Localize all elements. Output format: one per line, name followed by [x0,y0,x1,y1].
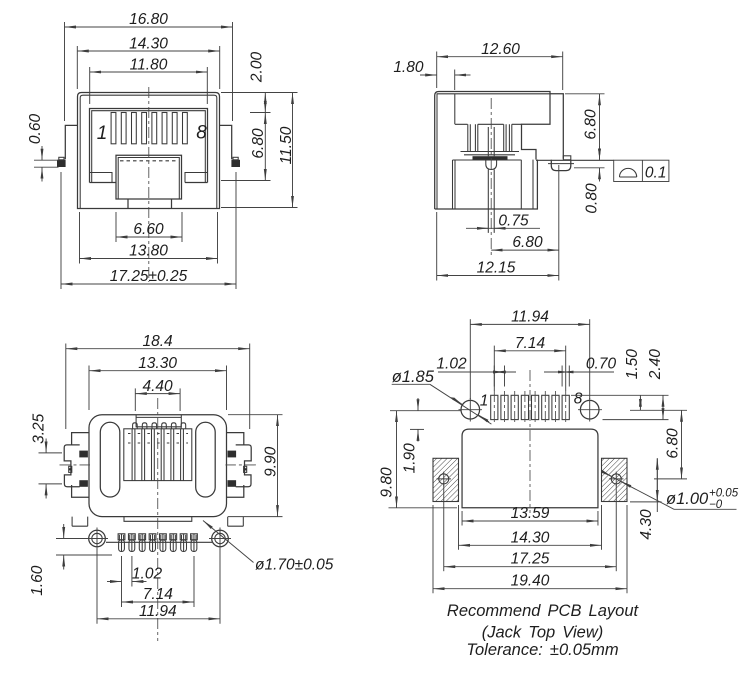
right wing bracket [225,433,256,498]
svg-text:4.40: 4.40 [143,378,174,395]
svg-text:14.30: 14.30 [129,35,168,52]
carrier wall lines [468,124,512,151]
right shelf step [185,173,208,183]
svg-text:1.90: 1.90 [402,443,419,474]
top tab [136,415,181,427]
svg-text:1.02: 1.02 [132,565,163,582]
below-board block [435,160,538,209]
dim 1.02 pcb [493,366,495,387]
svg-text:0.1: 0.1 [645,165,667,182]
left solder tab [57,160,66,167]
svg-text:6.80: 6.80 [250,128,267,159]
leader dia 1.70 [203,521,254,563]
dim 1.50 [639,395,641,410]
svg-text:−0: −0 [709,499,723,511]
svg-text:19.40: 19.40 [511,573,550,590]
svg-text:1.60: 1.60 [29,565,46,596]
dim 6.80 pcb [681,410,683,479]
pad 1 [491,391,498,424]
pin inside housing [488,127,494,156]
svg-text:12.60: 12.60 [481,41,520,58]
svg-text:4.30: 4.30 [638,509,655,540]
hole dia1.85 left [461,400,480,419]
svg-text:(Jack Top View): (Jack Top View) [482,624,603,642]
svg-text:13.30: 13.30 [138,355,177,372]
ext pad top right [571,394,669,396]
svg-text:ø1.00: ø1.00 [666,490,709,508]
leader dia 1.85 [392,383,430,385]
dim 11.94 [97,618,220,620]
latch hidden dashes [120,160,178,162]
latch window [116,155,182,199]
below-board inner walls [453,160,534,209]
dim 2.40 [662,395,664,419]
svg-text:11.80: 11.80 [130,56,168,73]
svg-text:8: 8 [196,123,207,144]
comb contact ticks [128,434,188,444]
svg-text:18.4: 18.4 [143,333,174,350]
dim 1.80 [454,70,456,91]
ext hole center right [630,409,687,411]
contact tips above comb [133,423,186,429]
svg-text:11.94: 11.94 [511,309,549,326]
svg-text:7.14: 7.14 [515,335,546,352]
dim 13.30 [89,370,227,372]
ext pad bottom right [603,419,669,421]
pad 7 [552,391,559,424]
opening box inner lines [92,111,206,183]
dim 13.59 [461,511,463,526]
left wing bracket [60,433,91,498]
dim 0.80 [574,167,605,169]
centerline pcb [529,370,531,513]
smt pins top view [118,534,125,552]
left wing [65,125,77,159]
solder pin [488,170,494,233]
dim 11.94 pcb [470,323,589,325]
pin slot 5 [152,113,157,144]
dim 9.80 [390,410,461,412]
svg-text:11.50: 11.50 [278,126,295,164]
dim 4.40 [135,393,180,395]
dim 6.80 right [264,113,266,181]
dim 12.60 [437,56,563,58]
svg-text:14.30: 14.30 [511,529,550,546]
bottom band [124,517,192,522]
dim 0.60 [34,159,59,161]
dim 11.50 [292,93,294,208]
left wing stub below body [72,517,88,527]
left shelf step [90,173,113,183]
svg-text:0.70: 0.70 [586,355,617,372]
svg-text:3.25: 3.25 [31,413,48,444]
svg-text:1.02: 1.02 [436,355,467,372]
contact comb block [124,429,192,481]
dim 1.02 [121,556,123,587]
hole dia1.85 right [580,400,599,419]
svg-text:6.60: 6.60 [133,221,164,238]
svg-text:16.80: 16.80 [129,11,168,28]
svg-text:Recommend PCB Layout: Recommend PCB Layout [447,602,640,620]
dim 14.30 pcb [458,505,460,550]
dim 12.15 [437,275,559,277]
pin slot 2 [121,113,126,144]
dim 19.40 [432,505,434,593]
svg-text:13.59: 13.59 [511,505,550,522]
centerline front view [148,87,150,282]
svg-text:0.80: 0.80 [584,183,601,214]
dim 1.60 [56,538,88,540]
svg-text:17.25: 17.25 [511,551,550,568]
dim 6.80 side right [565,93,605,95]
pin slot 3 [132,113,137,144]
profile tolerance frame [614,160,669,181]
svg-text:1: 1 [480,393,489,410]
profile symbol [620,168,637,177]
housing inner wall [454,94,456,125]
svg-text:0.75: 0.75 [498,212,529,229]
latch window inner lines [118,158,179,200]
small hole right [611,474,621,484]
small hole left [439,474,449,484]
svg-text:1.80: 1.80 [393,59,424,76]
dim 18.4 [66,348,250,350]
right wing stub below body [228,517,244,527]
svg-text:Tolerance: ±0.05mm: Tolerance: ±0.05mm [466,641,618,659]
svg-text:2.00: 2.00 [249,52,266,84]
pin slot 1 [111,113,116,144]
left oblong slot [100,422,120,497]
latch lower tab [128,199,172,209]
svg-text:0.60: 0.60 [27,114,44,145]
rear locator tab [551,160,571,171]
svg-text:1: 1 [97,123,108,144]
svg-text:9.90: 9.90 [263,446,280,477]
leader dia 1.00 [608,475,675,510]
dim 11.80 [90,71,208,73]
pin slot 7 [172,113,177,144]
svg-text:ø1.70±0.05: ø1.70±0.05 [255,557,334,574]
dim 2.00 [264,93,266,113]
opening box [90,109,208,183]
dim 17.25 pcb [443,484,445,571]
hatch pad right [602,458,628,501]
contact carrier top [455,123,522,125]
dim 0.75 [466,227,540,229]
svg-text:ø1.85: ø1.85 [392,368,435,386]
svg-text:2.40: 2.40 [647,349,664,381]
svg-text:+0.05: +0.05 [709,488,739,500]
dim 17.25±0.25 [61,283,236,285]
dim 4.30 [656,458,658,512]
pad 2 [501,391,508,424]
pin slot 4 [142,113,147,144]
contact bar (black) [473,156,508,160]
right solder tab [231,160,240,167]
pad 5 [532,391,539,424]
dim 3.25 [39,452,63,454]
centerline bottom-left view [157,398,159,641]
dim 14.30 [77,50,219,52]
dim 7.14 pcb [494,350,565,352]
right oblong slot [196,422,216,497]
pad 4 [521,391,528,424]
dim 9.90 [228,414,283,416]
svg-text:13.80: 13.80 [129,243,168,260]
svg-text:7.14: 7.14 [143,586,174,603]
pad 3 [511,391,518,424]
pin slot 6 [162,113,167,144]
svg-text:6.80: 6.80 [583,109,600,140]
pad 6 [542,391,549,424]
svg-text:1.50: 1.50 [624,349,641,380]
dim 7.14 [122,601,195,603]
dim 16.80 [65,26,233,28]
hatch pad left [433,458,459,501]
pad 8 [562,391,569,424]
svg-text:11.94: 11.94 [139,603,177,620]
pin slot 8 [183,113,188,144]
rear small foot [563,156,571,160]
svg-text:6.80: 6.80 [665,428,682,459]
svg-text:9.80: 9.80 [379,467,396,498]
back lip [550,94,564,159]
left mounting hole [89,530,106,547]
dim 6.80 bottom [491,249,559,251]
dim 0.70 [561,366,563,387]
shield body inner wall lines [80,95,217,208]
ext lines right of front view [221,92,298,94]
seating plane line [453,159,522,161]
bottom flange line [106,541,212,543]
shield body outline [78,93,220,209]
pin shoulder bump [486,160,497,169]
footprint outline [462,429,598,508]
comb finger lines [132,429,183,481]
jack body rounded rect [89,415,227,517]
side body inner front/top lines [437,94,550,209]
svg-text:17.25±0.25: 17.25±0.25 [110,268,188,285]
side body outer profile [435,92,550,210]
dim 13.80 [80,258,218,260]
right wing [220,125,232,159]
dim 6.60 [116,236,182,238]
svg-text:6.80: 6.80 [512,234,543,251]
dim 1.90 [410,428,424,430]
carrier bottom lines [461,152,520,155]
right mounting hole [212,530,229,547]
svg-text:12.15: 12.15 [477,260,516,277]
seating plane line rear / datum leader [536,159,614,161]
pin centerline [490,98,492,256]
